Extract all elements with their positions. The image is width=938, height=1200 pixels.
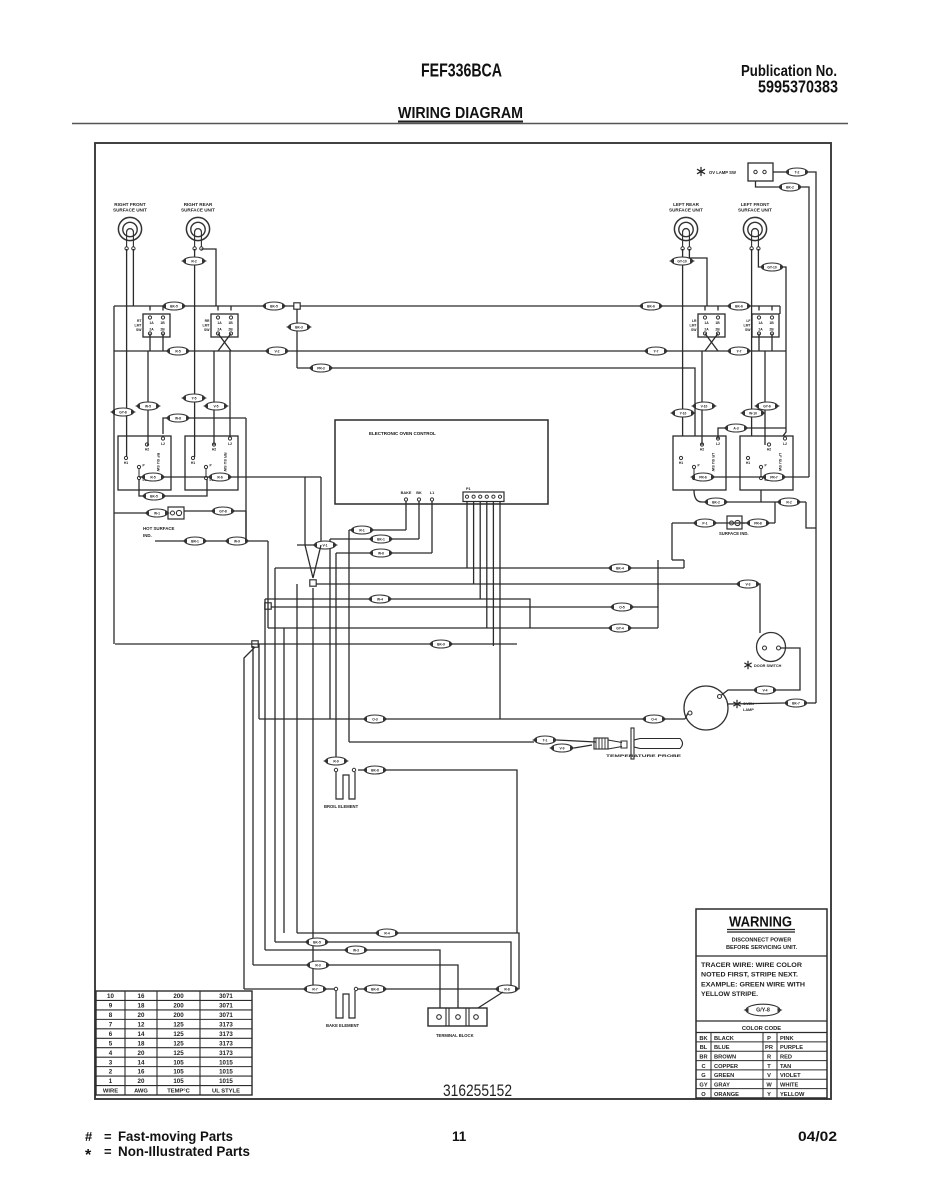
wire row y=989 bake left: [244, 988, 334, 990]
wire elbow to border: [806, 502, 816, 528]
svg-text:2B: 2B: [228, 328, 233, 332]
wire lamp border link: [808, 702, 816, 704]
connector BK-5 at 317,942: [304, 938, 330, 946]
wire row y=950: [265, 950, 440, 1008]
svg-text:PR-3: PR-3: [317, 366, 325, 370]
svg-text:105: 105: [173, 1069, 184, 1076]
connector A-3 at 736,428: [723, 424, 749, 432]
svg-text:10: 10: [107, 993, 114, 1000]
junction node A: [310, 580, 316, 586]
svg-text:125: 125: [173, 1040, 184, 1047]
connector BK-5 at 274,306: [261, 302, 287, 310]
connector BK-5 at 154,496: [141, 492, 167, 500]
svg-text:DOOR SWITCH: DOOR SWITCH: [754, 664, 782, 668]
svg-text:R: R: [767, 1055, 771, 1061]
svg-text:R-8: R-8: [504, 987, 509, 991]
wire lamp right to border: [727, 703, 784, 704]
svg-text:9: 9: [109, 1003, 113, 1010]
svg-text:R-4: R-4: [384, 931, 389, 935]
svg-text:V-4: V-4: [763, 688, 768, 692]
connector T-1 at 545,740: [532, 736, 558, 744]
bus H1 y=306: [114, 305, 780, 307]
svg-text:W-4: W-4: [377, 597, 383, 601]
svg-text:H1: H1: [746, 461, 750, 465]
svg-text:1A: 1A: [704, 321, 709, 325]
wire junction drop to PR bus: [296, 309, 298, 368]
svg-text:A-3: A-3: [733, 426, 738, 430]
connector R-8 at 507,989: [494, 985, 520, 993]
svg-text:LAMP: LAMP: [743, 708, 754, 712]
wire RF coil left lead down to RF switch H1: [126, 249, 128, 457]
junction node B: [265, 603, 271, 609]
surface unit coil RIGHT REAR SURFACE UNIT: [181, 202, 215, 250]
wire bundle x=253: [252, 646, 254, 965]
svg-text:1015: 1015: [219, 1059, 233, 1066]
svg-text:H1: H1: [679, 461, 683, 465]
svg-text:1A: 1A: [217, 321, 222, 325]
wire LR limit to LR switch H2: [701, 351, 703, 445]
wire bk feed down: [329, 539, 331, 719]
connector PR-6 at 703,477: [690, 473, 716, 481]
svg-text:W-3: W-3: [353, 948, 359, 952]
limit switch RT: [135, 314, 170, 337]
svg-text:1B: 1B: [228, 321, 233, 325]
connector W-5 at 148,406: [135, 402, 161, 410]
connector GY-10 at 772,267: [759, 263, 785, 271]
wire row y=584 to door switch: [316, 584, 760, 633]
svg-text:BK-3: BK-3: [295, 325, 303, 329]
svg-text:GY-6: GY-6: [763, 404, 771, 408]
warning box: [696, 909, 827, 1098]
wire RR limit cross under: [218, 334, 231, 352]
wire LR coil left lead down to LR switch: [682, 249, 684, 436]
svg-text:GY-8: GY-8: [219, 509, 227, 513]
svg-text:LR: LR: [692, 319, 697, 323]
connector O-5 at 622,607: [609, 603, 635, 611]
svg-text:BK-5: BK-5: [270, 304, 278, 308]
wire RF switch L2 up and over: [163, 418, 246, 434]
wire right L1 row: [694, 476, 809, 478]
svg-text:LF SU SW: LF SU SW: [778, 453, 782, 472]
svg-text:BK-6: BK-6: [735, 304, 743, 308]
svg-text:SURFACE UNIT: SURFACE UNIT: [113, 208, 147, 213]
svg-text:BR: BR: [699, 1055, 707, 1061]
connector R-1 at 362,530: [349, 526, 375, 534]
svg-text:BK-8: BK-8: [371, 768, 379, 772]
connector P-1 at 705,523: [692, 519, 718, 527]
svg-text:BR-1: BR-1: [191, 539, 199, 543]
connector R-4 at 387,933: [374, 929, 400, 937]
wire left vertical x=114: [113, 306, 115, 644]
connector R-9 at 336,761: [323, 757, 349, 765]
wire row y=989 bake right: [358, 988, 497, 990]
connector BK-7 at 796,703: [783, 699, 809, 707]
connector BK-5 at 174,306: [161, 302, 187, 310]
svg-text:COLOR CODE: COLOR CODE: [742, 1026, 781, 1032]
svg-text:18: 18: [138, 1040, 145, 1047]
svg-text:04/02: 04/02: [798, 1128, 837, 1144]
wire bundle x=297: [296, 584, 298, 933]
svg-text:TERMINAL BLOCK: TERMINAL BLOCK: [436, 1033, 474, 1038]
svg-text:LEFT REAR: LEFT REAR: [673, 202, 699, 207]
svg-text:VIOLET: VIOLET: [780, 1073, 801, 1079]
connector GY-6 at 767,406: [754, 402, 780, 410]
svg-text:LEFT FRONT: LEFT FRONT: [741, 202, 770, 207]
connector W-4 at 380,599: [367, 595, 393, 603]
svg-text:H1: H1: [191, 461, 195, 465]
wire diag from node C: [244, 647, 255, 989]
svg-text:GY: GY: [699, 1083, 707, 1089]
wire V diagonals: [305, 545, 313, 578]
svg-text:H1: H1: [124, 461, 128, 465]
svg-text:14: 14: [138, 1059, 145, 1066]
wire LR limit columns: [704, 306, 706, 311]
svg-text:TRACER WIRE: WIRE COLOR: TRACER WIRE: WIRE COLOR: [701, 963, 803, 969]
connector T-2 at 797,172: [784, 168, 810, 176]
svg-text:G/Y-8: G/Y-8: [756, 1007, 770, 1013]
svg-text:2A: 2A: [758, 328, 763, 332]
connector Y-7 at 656,351: [643, 347, 669, 355]
svg-text:#: #: [85, 1129, 93, 1144]
wire diag to terminal block: [478, 992, 503, 1008]
surface switch LF: [740, 436, 793, 490]
svg-text:R-3: R-3: [315, 963, 320, 967]
svg-text:BLUE: BLUE: [714, 1045, 730, 1051]
svg-text:ELECTRONIC OVEN CONTROL: ELECTRONIC OVEN CONTROL: [369, 431, 436, 436]
surface switch RR: [185, 436, 238, 490]
wire RR coil left lead down: [194, 249, 196, 457]
wire lamp sw second drop: [802, 187, 809, 477]
wire bake feed down to probe row: [348, 530, 350, 742]
wire row y=770 broil right: [358, 770, 517, 933]
svg-text:C: C: [701, 1064, 705, 1070]
wire row y=628: [268, 627, 658, 629]
connector V-10 at 704,406: [691, 402, 717, 410]
connector GY-4 at 620,628: [607, 624, 633, 632]
svg-text:NOTED FIRST, STRIPE NEXT.: NOTED FIRST, STRIPE NEXT.: [701, 973, 798, 979]
svg-text:6: 6: [109, 1031, 113, 1038]
wire RR switch L2 up to H2 bus: [229, 351, 231, 436]
wire RT limit columns: [149, 306, 151, 311]
svg-text:16: 16: [138, 993, 145, 1000]
svg-text:R-5: R-5: [175, 349, 180, 353]
svg-text:G: G: [701, 1073, 706, 1079]
svg-text:3071: 3071: [219, 1003, 233, 1010]
svg-text:2B: 2B: [160, 328, 165, 332]
svg-text:3173: 3173: [219, 1040, 233, 1047]
svg-text:PURPLE: PURPLE: [780, 1045, 803, 1051]
surface unit coil LEFT FRONT SURFACE UNIT: [738, 202, 772, 250]
bake element: [326, 987, 359, 1028]
connector V-4 at 765,690: [752, 686, 778, 694]
connector R-5 at 178,351: [165, 347, 191, 355]
svg-text:R-9: R-9: [333, 759, 338, 763]
svg-text:BK-6: BK-6: [647, 304, 655, 308]
svg-text:ORANGE: ORANGE: [714, 1092, 739, 1098]
connector BK-9 at 441,644: [428, 640, 454, 648]
svg-text:BK: BK: [416, 491, 422, 495]
svg-text:2A: 2A: [149, 328, 154, 332]
svg-text:2B: 2B: [715, 328, 720, 332]
svg-text:BK-5: BK-5: [313, 940, 321, 944]
svg-text:T-1: T-1: [543, 738, 548, 742]
svg-text:R-2: R-2: [191, 259, 196, 263]
svg-text:W-5: W-5: [145, 404, 151, 408]
wire row y=541 below switches: [155, 540, 268, 542]
svg-text:20: 20: [138, 1012, 145, 1019]
wire L1 feed down to broil: [335, 553, 337, 761]
svg-text:L2: L2: [161, 442, 165, 446]
svg-text:SW: SW: [204, 328, 210, 332]
surface unit coil RIGHT FRONT SURFACE UNIT: [113, 202, 147, 250]
connector R-2 at 194,261: [181, 257, 207, 265]
connector R-6 at 220,477: [207, 473, 233, 481]
svg-text:RR: RR: [205, 319, 210, 323]
svg-text:RIGHT REAR: RIGHT REAR: [184, 202, 213, 207]
svg-text:=: =: [104, 1144, 112, 1159]
wire lamp switch bottom: [756, 181, 779, 187]
svg-text:2A: 2A: [217, 328, 222, 332]
svg-text:AWG: AWG: [134, 1089, 148, 1095]
wire row y=644: [115, 643, 517, 645]
surface switch LR: [673, 436, 726, 490]
connector BK-8 at 375,989: [362, 985, 388, 993]
oven lamp switch: [697, 163, 773, 181]
svg-text:R-5: R-5: [150, 475, 155, 479]
connector BK-1 at 381,539: [368, 535, 394, 543]
terminal block TB1: [428, 1008, 487, 1038]
limit switch LF: [744, 314, 779, 337]
bus H3 y=368 PR wire: [297, 368, 695, 436]
svg-text:O-4: O-4: [651, 717, 657, 721]
door switch S1: [744, 633, 785, 670]
svg-text:W-1: W-1: [154, 511, 160, 515]
wire bundle x=275: [274, 568, 276, 942]
oven lamp DS1: [684, 686, 754, 730]
svg-text:EXAMPLE: GREEN WIRE WITH: EXAMPLE: GREEN WIRE WITH: [701, 983, 805, 989]
svg-text:125: 125: [173, 1021, 184, 1028]
connector BK-4 at 620,568: [607, 564, 633, 572]
svg-text:OV LAMP SW: OV LAMP SW: [709, 170, 736, 175]
svg-text:L2: L2: [716, 442, 720, 446]
svg-text:1015: 1015: [219, 1069, 233, 1076]
svg-text:BEFORE SERVICING UNIT.: BEFORE SERVICING UNIT.: [726, 945, 798, 951]
svg-text:12: 12: [138, 1021, 145, 1028]
connector BK-3 at 299,327: [286, 323, 312, 331]
svg-text:GREEN: GREEN: [714, 1073, 734, 1079]
wire row y=933: [297, 933, 519, 989]
svg-text:LMT: LMT: [690, 324, 698, 328]
wire row y=742 probe feed: [349, 741, 534, 743]
wire row y=599: [265, 599, 530, 628]
wire LF lead down right side: [783, 267, 786, 436]
wire EOC L1 drop: [431, 501, 433, 553]
connector BK-2 at 790,187: [777, 183, 803, 191]
svg-text:SW: SW: [745, 328, 751, 332]
svg-text:W-6: W-6: [378, 551, 384, 555]
limit switch LR: [690, 314, 725, 337]
EOC connector strip P1: [463, 487, 504, 502]
wire row y=942: [275, 942, 511, 986]
svg-text:BK-7: BK-7: [792, 701, 800, 705]
connector GY-10 at 682,261: [669, 257, 695, 265]
electronic oven control U1: [335, 420, 548, 504]
svg-text:O-3: O-3: [372, 717, 378, 721]
svg-text:H2: H2: [145, 448, 149, 452]
wire LR switch L1 to row: [694, 490, 702, 502]
wire bundle x=265: [264, 599, 266, 950]
wire EOC BAKE drop: [405, 501, 407, 530]
wire bundle x=284: [283, 628, 285, 933]
connector BK-2 at 716,502: [703, 498, 729, 506]
wire vertical x=259 step: [258, 644, 260, 719]
wire LF coil right lead: [758, 249, 760, 267]
svg-text:SURFACE UNIT: SURFACE UNIT: [738, 208, 772, 213]
wire L1 row y=475: [139, 476, 321, 478]
connector V-5 at 216,406: [203, 402, 229, 410]
connector BK-6 at 651,306: [638, 302, 664, 310]
diagram border: [95, 143, 831, 1099]
wire RR limit to RR switch H2: [213, 351, 215, 445]
svg-text:105: 105: [173, 1078, 184, 1085]
connector R-7 at 315,989: [302, 985, 328, 993]
wire step 672-684: [672, 559, 684, 561]
svg-text:BK: BK: [699, 1036, 708, 1042]
svg-text:YELLOW: YELLOW: [780, 1092, 805, 1098]
wire V short bar: [297, 544, 330, 546]
svg-text:3173: 3173: [219, 1050, 233, 1057]
svg-text:LF: LF: [746, 319, 750, 323]
svg-text:WIRE: WIRE: [103, 1089, 118, 1095]
svg-text:105: 105: [173, 1059, 184, 1066]
svg-text:LR SU SW: LR SU SW: [711, 453, 715, 472]
svg-text:T-2: T-2: [795, 170, 800, 174]
wire RR coil right lead to H1 bus: [201, 249, 216, 306]
svg-text:FEF336BCA: FEF336BCA: [421, 60, 502, 81]
wire row y=719 oven lamp feed: [259, 718, 685, 720]
svg-text:5995370383: 5995370383: [758, 77, 838, 97]
svg-text:200: 200: [173, 1003, 184, 1010]
wire L2 drop x=246: [245, 418, 247, 541]
svg-text:BROWN: BROWN: [714, 1055, 736, 1061]
wire LF coil left lead down: [751, 249, 753, 436]
hot surface indicator left: [114, 507, 246, 538]
wire strip pin drops: [466, 501, 468, 568]
surface switch RF: [118, 436, 171, 490]
svg-text:5: 5: [109, 1040, 113, 1047]
svg-text:V-9: V-9: [560, 746, 565, 750]
wire V merge left: [304, 477, 306, 545]
svg-text:L2: L2: [228, 442, 232, 446]
svg-text:R-7: R-7: [312, 987, 317, 991]
svg-text:LMT: LMT: [203, 324, 211, 328]
svg-text:200: 200: [173, 993, 184, 1000]
connector V-1 at 325,545: [312, 541, 338, 549]
svg-text:20: 20: [138, 1050, 145, 1057]
svg-text:RIGHT FRONT: RIGHT FRONT: [114, 202, 146, 207]
svg-text:V-2: V-2: [275, 349, 280, 353]
svg-text:PR: PR: [765, 1045, 773, 1051]
svg-text:W-10: W-10: [749, 411, 757, 415]
svg-text:O: O: [701, 1092, 706, 1098]
svg-text:3173: 3173: [219, 1021, 233, 1028]
connector GY-8 at 223,511: [210, 507, 236, 515]
svg-text:18: 18: [138, 1003, 145, 1010]
wire L1 row y=502: [702, 501, 806, 503]
wire RF coil right lead to H1 bus: [132, 249, 134, 306]
connector W-9 at 237,541: [224, 537, 250, 545]
wire L2 to L2 link: [718, 428, 786, 439]
svg-text:BK-2: BK-2: [786, 185, 794, 189]
limit switch RR: [203, 314, 238, 337]
wire EOC bake row left: [349, 529, 406, 531]
svg-text:H2: H2: [767, 448, 771, 452]
svg-text:Y-7: Y-7: [737, 349, 742, 353]
svg-text:R-2: R-2: [786, 500, 791, 504]
temperature probe: [532, 728, 683, 759]
wire L1 loop y=496: [139, 479, 207, 496]
connector R-5 at 153,477: [140, 473, 166, 481]
wire LF limit columns: [758, 306, 760, 311]
connector R-3 at 318,965: [305, 961, 331, 969]
svg-text:SURFACE IND.: SURFACE IND.: [719, 531, 749, 536]
svg-text:YELLOW STRIPE.: YELLOW STRIPE.: [701, 992, 758, 998]
connector W-6 at 381,553: [368, 549, 394, 557]
svg-text:SURFACE UNIT: SURFACE UNIT: [669, 208, 703, 213]
svg-text:O-5: O-5: [619, 605, 625, 609]
svg-text:200: 200: [173, 1012, 184, 1019]
connector G/Y-8 at 763,1010: [744, 1004, 783, 1016]
wire LF switch L1 down: [760, 490, 762, 502]
svg-text:V-5: V-5: [214, 404, 219, 408]
connector PR-8 at 758,523: [745, 519, 771, 527]
svg-text:TEMPERATURE PROBE: TEMPERATURE PROBE: [606, 754, 682, 758]
svg-text:V-3: V-3: [746, 582, 751, 586]
svg-text:TEMP°C: TEMP°C: [167, 1089, 190, 1095]
svg-text:LMT: LMT: [744, 324, 752, 328]
svg-text:L1: L1: [430, 491, 434, 495]
wire LR limit cross under: [705, 334, 718, 352]
connector W-10 at 753,413: [740, 409, 766, 417]
svg-text:3: 3: [109, 1059, 113, 1066]
svg-text:1A: 1A: [149, 321, 154, 325]
svg-text:20: 20: [138, 1078, 145, 1085]
svg-text:BLACK: BLACK: [714, 1036, 735, 1042]
svg-text:UL STYLE: UL STYLE: [212, 1089, 240, 1095]
svg-text:BK-4: BK-4: [616, 566, 624, 570]
wire LR coil right lead: [689, 249, 707, 306]
svg-text:BROIL ELEMENT: BROIL ELEMENT: [324, 804, 359, 809]
svg-text:11: 11: [452, 1129, 467, 1144]
svg-text:125: 125: [173, 1031, 184, 1038]
svg-text:V: V: [767, 1073, 771, 1079]
svg-text:PINK: PINK: [780, 1036, 794, 1042]
svg-text:BAKE: BAKE: [401, 491, 412, 495]
svg-text:1015: 1015: [219, 1078, 233, 1085]
svg-text:=: =: [104, 1129, 112, 1144]
wire bundle x=313: [312, 588, 314, 989]
wire hot surface drop: [245, 511, 247, 541]
broil element: [324, 768, 359, 809]
connector GY-8 at 123,412: [110, 408, 136, 416]
svg-text:4: 4: [109, 1050, 113, 1057]
connector Y-5 at 194,398: [181, 394, 207, 402]
wire row y=607: [271, 560, 658, 607]
connector O-4 at 654,719: [641, 715, 667, 723]
wire vertical x=684: [683, 560, 685, 568]
connector PR-3 at 321,368: [308, 364, 334, 372]
connector PR-7 at 774,477: [761, 473, 787, 481]
